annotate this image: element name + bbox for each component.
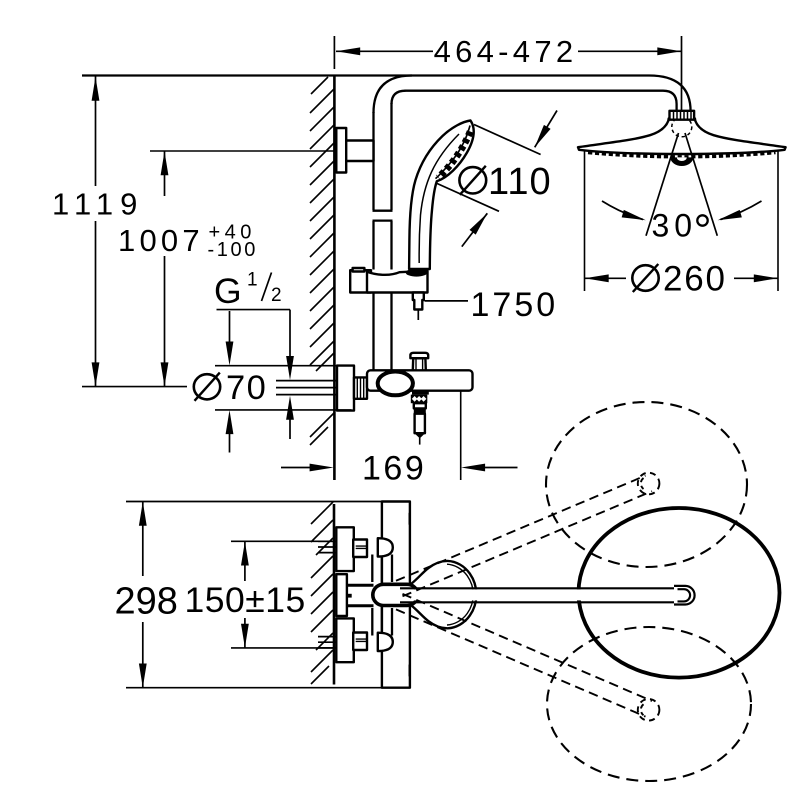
dimension 150 +-15 reference top xyxy=(231,540,337,542)
dimension diameter 110 upper dim line xyxy=(474,125,541,155)
dimension 169 left arrow xyxy=(281,464,334,472)
hand shower body separation line xyxy=(419,134,459,263)
dimension 150 +-15 line and arrows xyxy=(241,541,249,648)
svg-text:298: 298 xyxy=(115,581,178,623)
hand shower teardrop (top view) xyxy=(411,561,477,628)
body side tab bottom xyxy=(409,664,412,677)
diameter 260 text xyxy=(632,260,726,299)
diameter 70 arrow top xyxy=(226,311,234,366)
head shower top view solid ellipse xyxy=(579,508,780,678)
riser pipe left edge xyxy=(372,112,374,370)
mixer union nut xyxy=(354,377,367,398)
svg-text:260: 260 xyxy=(663,260,727,299)
riser pipe right edge xyxy=(390,103,392,370)
spout collar xyxy=(412,391,429,394)
head shower nozzle band xyxy=(588,153,776,157)
svg-text:169: 169 xyxy=(362,450,426,488)
wall line (front view) xyxy=(333,77,336,481)
lower port hex nut xyxy=(353,633,367,651)
G 1/2 leader arrow right up xyxy=(286,396,294,439)
hose stub xyxy=(417,310,419,321)
middle wall flange xyxy=(336,574,347,616)
body side tab top xyxy=(409,513,412,526)
swivel angle line left xyxy=(646,133,679,236)
lower swivel dashed hub xyxy=(638,699,660,721)
head shower connection nut xyxy=(670,111,695,120)
svg-text:1750: 1750 xyxy=(471,286,559,324)
upper swivel dashed head circle xyxy=(546,402,747,567)
hose connector below holder xyxy=(413,293,424,310)
svg-text:-100: -100 xyxy=(208,239,258,261)
spout aerator housing xyxy=(414,403,426,408)
spout drip line xyxy=(419,438,421,445)
svg-text:1007: 1007 xyxy=(118,223,204,258)
spout checkered nut xyxy=(411,395,428,404)
shower arm bottom edge xyxy=(405,90,664,92)
dimension diameter 70 bottom reference xyxy=(215,409,352,411)
298 reference line top (body top edge) xyxy=(126,501,411,503)
mixer supply stub white backing xyxy=(306,372,333,402)
shower arm top edge with 1119 reference line xyxy=(82,74,649,76)
diameter 70 text xyxy=(194,369,268,407)
svg-text:110: 110 xyxy=(488,161,552,203)
spout dark band xyxy=(414,408,426,413)
dimension 464-472 line and arrows xyxy=(336,47,681,55)
bottom view wall hatching xyxy=(311,502,333,684)
upper swivel dashed hub xyxy=(638,473,660,495)
riser pipe coupling xyxy=(373,211,393,221)
mixer body xyxy=(367,370,473,390)
dimension 1007 reference line xyxy=(150,150,336,152)
diverter knob cap xyxy=(410,353,428,358)
svg-text:30: 30 xyxy=(652,208,698,244)
upper port wall flange xyxy=(336,527,354,571)
dimension 1007 line and arrows xyxy=(161,151,169,387)
middle spout dot xyxy=(348,594,352,598)
svg-text:150±15: 150±15 xyxy=(185,580,306,620)
diameter 110 arrow upper xyxy=(531,111,557,150)
riser column lines (top view) xyxy=(372,555,392,636)
dimension 1750 leader xyxy=(425,300,469,302)
hand shower face rim line xyxy=(436,126,471,179)
lower port wall flange xyxy=(336,618,354,662)
swivel angle line right xyxy=(685,133,717,236)
dimension 169 right extension xyxy=(460,391,462,480)
hand shower holder body xyxy=(367,271,428,293)
298 reference line bottom (body bottom edge) xyxy=(126,687,411,689)
G 1/2 bracket line xyxy=(217,309,291,311)
hand shower holder left block xyxy=(350,270,371,292)
head shower center hub xyxy=(670,157,693,166)
wall hatching (front view) xyxy=(310,77,334,445)
holder left block cap xyxy=(353,268,365,272)
upper port supply stub xyxy=(318,541,336,552)
diameter 110 arrow lower xyxy=(462,211,491,247)
G 1/2 leader arrow right down xyxy=(286,310,294,380)
teardrop inner rim line xyxy=(447,564,473,625)
dimension 298 line and arrows xyxy=(139,502,147,688)
mixer supply pipe lines xyxy=(276,381,337,395)
arm right inner bend xyxy=(663,91,677,112)
svg-text:1119: 1119 xyxy=(52,187,144,222)
hand shower spray face teeth xyxy=(438,132,470,178)
lower swivel dashed arm xyxy=(396,594,652,717)
dimension 464-472 extension right xyxy=(681,36,683,111)
svg-text:2: 2 xyxy=(271,285,282,306)
hand shower handle end cap xyxy=(406,269,428,277)
thermostat body (top view) xyxy=(382,502,410,688)
svg-text:464-472: 464-472 xyxy=(434,34,578,69)
diameter 70 arrow bottom xyxy=(226,410,234,452)
dimension diameter 110 lower dim line xyxy=(436,183,499,211)
svg-text:70: 70 xyxy=(226,369,267,407)
diameter 260 dim line and arrows xyxy=(585,274,779,282)
spout tip xyxy=(415,433,425,438)
dimension 1119 line and arrows xyxy=(92,77,100,387)
wall bracket arm xyxy=(346,141,373,162)
dimension 169 right arrow xyxy=(461,464,517,472)
upper port dome cap xyxy=(378,538,393,556)
mixer handle ellipse xyxy=(378,372,413,396)
diameter 110 text xyxy=(459,161,551,203)
dimension diameter 260 right extension xyxy=(777,152,779,292)
dimension 150 +-15 reference bottom xyxy=(231,647,337,649)
hand shower head and handle silhouette xyxy=(409,121,474,270)
lower port dome cap xyxy=(378,633,393,651)
upper port hex nut xyxy=(353,540,367,558)
arm right outer bend xyxy=(649,76,691,112)
riser-to-arm inner bend xyxy=(392,91,406,104)
angle 30 curved arrow left xyxy=(602,201,647,224)
degree symbol xyxy=(697,215,707,225)
upper swivel dashed arm xyxy=(396,476,652,597)
head shower body profile xyxy=(578,119,786,155)
dimension diameter 260 left extension xyxy=(584,152,586,292)
lower swivel dashed head circle xyxy=(547,627,751,781)
dimension 464-472 extension left xyxy=(333,36,335,69)
middle spout bands xyxy=(347,585,374,605)
mixer wall flange xyxy=(337,366,354,411)
lower port supply stub xyxy=(318,637,336,648)
head shower dashed ball joint xyxy=(672,117,692,137)
svg-text:G: G xyxy=(214,271,242,311)
dimension 1119 bottom reference line xyxy=(82,386,187,388)
bottom view wall line xyxy=(333,504,336,685)
wall bracket flange xyxy=(336,128,346,173)
diverter knob stem xyxy=(413,358,426,370)
spout tube xyxy=(415,414,425,434)
riser-to-arm outer bend xyxy=(374,76,413,114)
arm pivot stadium (top view) xyxy=(373,584,418,605)
svg-text:1: 1 xyxy=(247,270,258,291)
shower arm (top view) xyxy=(400,586,695,605)
dimension diameter 70 top reference xyxy=(215,365,352,367)
angle 30 curved arrow right xyxy=(717,201,762,224)
